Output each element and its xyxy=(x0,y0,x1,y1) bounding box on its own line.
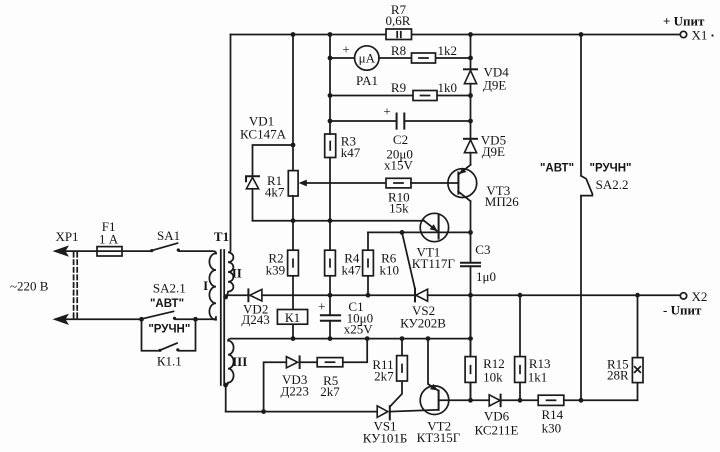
connector XP1 arrow top xyxy=(53,229,152,257)
wire +Upit top rail xyxy=(231,34,681,36)
relay coil K1 xyxy=(277,276,307,341)
svg-text:k10: k10 xyxy=(379,263,399,278)
resistor R9 xyxy=(391,80,457,100)
transformer T1 winding III xyxy=(223,339,247,412)
wire R9 row y95.5 xyxy=(328,93,473,98)
svg-text:PA1: PA1 xyxy=(356,73,378,88)
svg-text:КТ315Г: КТ315Г xyxy=(417,430,461,445)
svg-text:R9: R9 xyxy=(391,80,406,95)
transformer T1 label xyxy=(214,229,229,244)
svg-text:T1: T1 xyxy=(214,229,229,244)
switch SA1 xyxy=(150,228,216,253)
resistor R14 xyxy=(538,395,637,436)
svg-text:X1: X1 xyxy=(692,28,708,43)
thyristor VS2 xyxy=(400,232,446,330)
diode VD5 xyxy=(464,133,506,160)
diode VD2 xyxy=(226,289,415,327)
junction top rail x581 xyxy=(579,32,584,37)
junction top rail x330 xyxy=(328,32,333,37)
resistor R11 xyxy=(372,339,407,407)
capacitor C2 xyxy=(383,104,413,173)
svg-text:μА: μА xyxy=(359,51,376,66)
svg-text:2k7: 2k7 xyxy=(374,369,394,384)
svg-text:x25V: x25V xyxy=(344,321,374,336)
svg-text:КС211Е: КС211Е xyxy=(475,423,519,438)
svg-text:15k: 15k xyxy=(389,200,409,215)
svg-text:1 А: 1 А xyxy=(99,232,119,247)
svg-text:КУ202В: КУ202В xyxy=(400,315,446,330)
svg-text:~220 В: ~220 В xyxy=(10,279,49,294)
wire winding III top row y338.6 xyxy=(231,336,473,341)
resistor R13 xyxy=(515,295,551,402)
relay contact K1.1 xyxy=(142,319,196,368)
svg-text:"РУЧН": "РУЧН" xyxy=(590,162,632,174)
svg-text:k39: k39 xyxy=(266,263,286,278)
svg-text:КС147А: КС147А xyxy=(240,127,287,142)
capacitor C1 xyxy=(318,298,373,341)
svg-text:Д9Е: Д9Е xyxy=(482,144,505,159)
diode VD6 xyxy=(471,395,539,438)
fuse F1 xyxy=(97,219,122,256)
switch SA2.2 xyxy=(540,35,632,401)
svg-text:МП26: МП26 xyxy=(485,194,519,209)
svg-text:1k1: 1k1 xyxy=(528,369,548,384)
wire R6-VT1 base row y232.4 xyxy=(368,230,473,235)
resistor R4 xyxy=(325,250,362,277)
capacitor C3 xyxy=(461,242,496,400)
svg-text:VD6: VD6 xyxy=(484,408,510,423)
terminal X1 xyxy=(663,14,714,43)
svg-text:+: + xyxy=(318,298,325,313)
svg-text:k47: k47 xyxy=(341,145,361,160)
svg-text:II: II xyxy=(232,265,242,280)
resistor R5 xyxy=(317,358,343,400)
svg-text:+ Uпит: + Uпит xyxy=(663,14,705,29)
svg-text:10k: 10k xyxy=(483,369,503,384)
connector XP1 arrow bottom xyxy=(53,314,142,325)
wire main column x470 upper xyxy=(470,35,472,263)
wire VD1 branch top xyxy=(253,143,296,176)
switch SA2.1 xyxy=(139,280,216,335)
wire bottom rail y411.6 xyxy=(226,411,378,413)
svg-text:- Uпит: - Uпит xyxy=(663,303,702,318)
transistor VT3 xyxy=(448,165,519,209)
diode VD3 xyxy=(281,356,309,398)
svg-text:SA2.2: SA2.2 xyxy=(596,177,629,192)
wire R3R4 column x330 xyxy=(328,35,333,316)
svg-text:К1.1: К1.1 xyxy=(157,354,182,369)
wire VD1-R3R4 row y220.7 xyxy=(253,218,425,223)
wire VD3-R5 row y362 xyxy=(261,339,367,414)
resistor R6 xyxy=(363,232,399,297)
resistor R12 xyxy=(465,295,505,402)
transformer T1 core xyxy=(221,250,224,385)
wire R1 wiper to R10 y183 xyxy=(306,182,386,184)
junction top rail x470 xyxy=(468,32,473,37)
transistor VT1 xyxy=(412,213,456,271)
svg-text:C2: C2 xyxy=(393,132,408,147)
junction top rail x293 xyxy=(291,32,296,37)
transformer T1 winding II xyxy=(223,35,242,300)
resistor R15 xyxy=(607,295,643,400)
svg-text:C3: C3 xyxy=(475,242,490,257)
svg-text:1k2: 1k2 xyxy=(438,43,458,58)
diode VD4 xyxy=(464,65,509,93)
svg-text:1μ0: 1μ0 xyxy=(476,269,496,284)
svg-text:I: I xyxy=(203,278,208,293)
svg-text:КТ117Г: КТ117Г xyxy=(412,256,456,271)
svg-text:+: + xyxy=(383,104,390,119)
potentiometer R1 xyxy=(265,35,307,251)
svg-text:4k7: 4k7 xyxy=(265,185,285,200)
terminal X2 xyxy=(663,289,707,318)
svg-text:x15V: x15V xyxy=(384,158,414,173)
resistor R3 xyxy=(325,133,361,160)
svg-text:+: + xyxy=(342,42,349,57)
svg-text:R8: R8 xyxy=(391,43,406,58)
svg-text:SA2.1: SA2.1 xyxy=(153,280,186,295)
svg-text:"АВТ": "АВТ" xyxy=(540,162,574,174)
thyristor VS1 xyxy=(363,406,439,446)
svg-text:2k7: 2k7 xyxy=(320,384,340,399)
svg-text:Д243: Д243 xyxy=(241,312,269,327)
resistor R8 xyxy=(391,43,457,63)
wire PA1 row y58 xyxy=(328,56,473,61)
resistor R7 xyxy=(386,2,412,40)
label ~220V xyxy=(10,279,49,294)
svg-text:Д9Е: Д9Е xyxy=(483,78,506,93)
resistor R10 xyxy=(386,178,458,215)
transformer T1 winding I xyxy=(203,253,216,319)
svg-text:Д223: Д223 xyxy=(281,384,309,399)
connector XP1 dashed plug lines xyxy=(74,253,78,319)
svg-text:0,6R: 0,6R xyxy=(386,13,411,28)
wire -Upit rail right xyxy=(428,293,681,298)
svg-text:1k0: 1k0 xyxy=(438,80,458,95)
svg-text:k47: k47 xyxy=(341,263,361,278)
svg-text:XP1: XP1 xyxy=(55,229,78,244)
svg-text:28R: 28R xyxy=(607,368,629,383)
svg-text:"АВТ": "АВТ" xyxy=(150,298,184,310)
zener VD1 xyxy=(240,114,287,221)
meter PA1 xyxy=(342,42,379,89)
svg-text:SA1: SA1 xyxy=(157,228,180,243)
transistor VT2 xyxy=(417,339,471,446)
svg-text:III: III xyxy=(232,354,247,369)
svg-text:k30: k30 xyxy=(542,421,562,436)
wire C2 row y121 xyxy=(328,119,473,124)
svg-text:КУ101Б: КУ101Б xyxy=(363,430,408,445)
svg-text:К1: К1 xyxy=(285,310,300,325)
resistor R2 xyxy=(266,250,299,277)
svg-text:"РУЧН": "РУЧН" xyxy=(148,324,190,336)
